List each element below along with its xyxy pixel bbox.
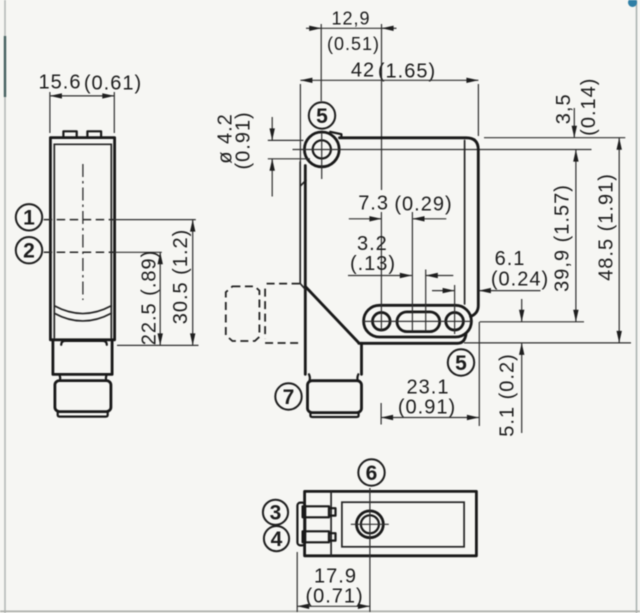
svg-text:(0.24): (0.24) [491,269,549,291]
svg-text:4: 4 [271,528,283,551]
label circle 5 lower [448,349,474,375]
hole vertical centerline [321,133,323,180]
dim line 39,9 [575,150,577,322]
clamp bar upper tab [329,508,336,515]
ext 23.1 right [478,322,480,426]
svg-text:2: 2 [23,240,35,263]
slot centerline horizontal [363,320,471,322]
svg-text:(0.51): (0.51) [327,34,380,54]
dim 3,5 upper arrow [573,108,575,138]
bottom view main plate [305,491,477,555]
ref line top edge right [484,137,625,139]
dim line 15.6 [50,95,114,97]
svg-text:23.1: 23.1 [407,377,450,399]
hidden thread outline [265,284,300,343]
svg-text:3: 3 [270,502,282,525]
dia 4.2 ref line upper [268,139,304,141]
mounting hole inner circle [313,140,331,158]
svg-text:6.1: 6.1 [495,248,526,270]
hole horizontal centerline long [293,149,592,151]
mounting foot stadium [364,305,472,337]
neck ring main view [309,374,359,380]
slot left hole [373,313,391,331]
svg-text:(.13): (.13) [350,253,396,275]
svg-text:(0.29): (0.29) [394,194,452,216]
photo edge bottom line [0,610,640,612]
svg-text:17.9: 17.9 [314,566,357,588]
ext line optic axis upper [381,24,383,190]
body left edge [304,166,307,375]
dim line 42 [300,79,478,81]
svg-text:39,9 (1.57): 39,9 (1.57) [551,184,573,292]
svg-text:7: 7 [283,386,295,409]
ext line slot right [425,270,427,313]
label circle 3 [263,500,288,525]
dim line 12,9 right arrow [382,27,397,29]
svg-text:(1.65): (1.65) [378,61,436,83]
svg-text:1: 1 [23,207,35,230]
svg-text:(0.14): (0.14) [578,78,600,136]
dia 4.2 upper arrow [271,117,273,140]
sensor body outline (side view) [50,138,114,340]
M8 plug body [55,381,111,412]
svg-text:3.2: 3.2 [357,233,388,255]
photo corner blue dot [628,0,637,7]
front bezel outer edge [299,162,301,284]
ext line 42 left [299,84,301,165]
optical axis 1 dashed [44,219,115,221]
ext line 42 right [477,84,479,136]
label circle 2 [16,237,42,263]
middle slot stadium [397,312,440,332]
dim 7.3 left arrow [349,218,382,220]
svg-text:6: 6 [366,462,378,485]
optical axis 2 dashed [44,251,115,253]
label circle 6 [358,459,384,485]
mounting boss circle [304,132,339,167]
connector neck ring [59,374,107,380]
svg-text:(0.71): (0.71) [305,586,363,608]
dim line 17.9 [297,605,370,607]
ext line 15.6 left [49,92,51,133]
ext 23.1 left stub [380,403,382,425]
label circle 7 [275,383,301,409]
svg-text:5: 5 [455,352,467,375]
dim 6.1 right arrow [479,290,541,292]
label circle 5 top [309,102,335,128]
mid housing lip [61,341,107,345]
ref line foot bottom right [464,342,631,344]
optical axis 2 solid extension [115,251,162,253]
svg-text:(0.91): (0.91) [398,397,456,419]
dim line 23.1 [381,417,479,419]
bottom view hole inner [361,515,379,533]
svg-text:7.3: 7.3 [358,193,389,215]
top tab 1 [63,131,76,137]
dim 5.1 upper arrow [521,299,523,322]
optical axis 1 solid extension [115,219,196,221]
bottom reference line [117,344,199,346]
dim 3.2 right arrow [426,275,454,277]
boss top notch [330,132,341,138]
ref line body bottom right [480,321,584,323]
clamp left piece [297,503,305,546]
ext line 15.6 right [113,92,115,133]
ext line right hole center [454,285,456,334]
dim line 30.5 [192,220,194,346]
dim 7.3 right arrow [413,218,447,220]
ext line hole center top [320,24,322,101]
clamp bar lower tab [329,533,336,540]
photo edge left dark segment [4,36,6,97]
svg-text:(0.91): (0.91) [233,111,255,169]
svg-text:(0.61): (0.61) [84,73,142,95]
photo edge right line [636,0,638,613]
svg-text:3,5: 3,5 [553,93,575,124]
svg-text:5: 5 [316,105,328,128]
ext line slot left [411,212,413,312]
neck right edge [360,343,363,374]
M12 plug body bottom [308,381,362,413]
dim line 22.5 [159,252,161,345]
hole crosshair vertical and 17.9 ext [369,488,371,612]
bezel bottom connector diagonal [300,284,305,290]
inner face outline [54,144,111,337]
body top edge [340,138,479,317]
label circle 1 [16,204,42,230]
svg-text:30.5 (1.2): 30.5 (1.2) [170,229,192,325]
dim line 12,9 left arrow [306,27,321,29]
dia 4.2 ref line lower [268,158,310,160]
hole crosshair horizontal [351,523,389,525]
svg-text:42: 42 [351,60,375,82]
bezel top step [300,180,306,186]
chamfer diagonal [305,287,359,343]
svg-text:22.5 (.89): 22.5 (.89) [139,250,161,346]
top tab 2 [87,131,101,137]
svg-text:12,9: 12,9 [331,9,370,29]
dim line 48.5 [618,138,620,343]
ext 17.9 left [296,552,298,612]
ext line optic axis lower [380,212,382,331]
slot inner line B [425,312,427,331]
photo edge left line [4,0,6,613]
M12 plug flange bottom [310,413,358,417]
mid housing section [53,340,112,375]
dia 4.2 lower arrow [271,159,273,197]
dim 5.1 lower arrow [521,343,523,433]
centerline vertical [82,164,84,300]
clamp bar upper [303,506,329,517]
bottom view hole outer [357,511,384,538]
M8 plug flange [58,412,108,417]
dim 3.2 left arrow [348,275,412,277]
plate divider line [330,491,332,555]
hidden nut outline [226,286,260,341]
plate inner recess [342,502,464,547]
svg-text:5.1 (0.2): 5.1 (0.2) [497,353,519,436]
inner right vertical line [464,141,466,305]
slot right hole [446,313,464,331]
hidden waist line [264,289,266,339]
lens window curve lower [54,313,111,321]
lens window curve upper [54,306,111,314]
clamp bar lower [303,531,329,542]
svg-text:48.5 (1.91): 48.5 (1.91) [596,173,618,281]
slot inner line A [411,312,413,331]
svg-text:15.6: 15.6 [39,72,82,94]
label circle 4 [264,526,289,551]
body bottom edge [359,335,466,344]
dim 6.1 left arrow [432,290,455,292]
